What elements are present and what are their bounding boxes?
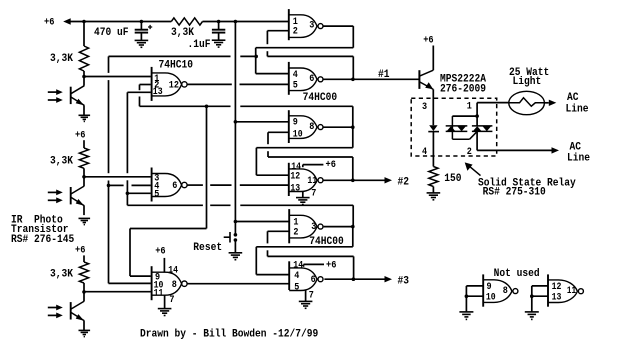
junction U3b output node — [352, 277, 356, 281]
svg-text:3: 3 — [422, 101, 427, 112]
svg-text:74HC10: 74HC10 — [159, 60, 194, 72]
ground Q3 emitter — [79, 218, 91, 224]
svg-text:+6: +6 — [75, 245, 85, 257]
svg-text:74HC00: 74HC00 — [303, 92, 338, 104]
svg-text:7: 7 — [311, 187, 316, 198]
svg-text:3: 3 — [309, 20, 314, 31]
svg-text:Not used: Not used — [494, 268, 540, 280]
ground reset switch — [229, 253, 243, 260]
junction spare1 inputs — [465, 294, 469, 298]
wire U2a out 3 feedback to U2b pin 4 — [323, 25, 353, 27]
svg-text:150: 150 — [444, 173, 461, 185]
svg-text:#3: #3 — [398, 275, 410, 287]
wire U2c pin 10 from U2d out — [268, 131, 289, 133]
junction U2c pin 9 tap — [234, 120, 238, 124]
svg-text:2: 2 — [293, 25, 298, 36]
svg-text:8: 8 — [309, 121, 314, 132]
wire U1c out 8 to U3b pin 5 — [187, 283, 289, 285]
wire U1b out 6 to U2d pin 13 — [187, 184, 203, 186]
resistor R5 150 — [429, 167, 438, 187]
svg-text:14: 14 — [293, 260, 303, 271]
arrow pointer to relay box — [465, 162, 481, 175]
wire photo1 to U1a pin 1 — [84, 76, 151, 78]
gate U1b 74HC10 (pins 3,4,5 out 6) — [152, 168, 187, 202]
wire relay pin 1 to lamp — [477, 102, 509, 104]
junction reset net top — [234, 20, 238, 24]
svg-text:7: 7 — [309, 289, 314, 300]
wire latch2-chain to U1c pin 9 — [206, 106, 208, 228]
svg-text:1: 1 — [467, 100, 472, 111]
wire photo3 to U1c pin 11 — [84, 291, 151, 293]
arrow +6 supply (left) — [63, 18, 70, 24]
wire photo2 to U1b pin 3 — [84, 176, 151, 178]
wire U1a pin 13 stub — [127, 91, 150, 93]
svg-text:470 uF: 470 uF — [94, 27, 129, 39]
ground C2 — [212, 40, 226, 47]
wire top +6 rail to gate A pin 1 — [70, 21, 171, 23]
junction U3a output node — [351, 225, 355, 229]
wire spare2 inputs tied — [532, 285, 548, 287]
gate U3 spare (pins 12,13 out 11) — [548, 274, 583, 306]
svg-text:+6: +6 — [155, 246, 165, 258]
svg-text:6: 6 — [172, 180, 177, 191]
junction C1 top — [140, 20, 144, 24]
resistor R2 3.3K — [79, 148, 88, 168]
svg-text:10: 10 — [486, 291, 496, 302]
svg-text:3: 3 — [311, 221, 316, 232]
svg-text:4: 4 — [422, 146, 427, 157]
svg-text:+6: +6 — [326, 159, 336, 171]
svg-text:5: 5 — [294, 281, 299, 292]
svg-text:+6: +6 — [423, 35, 433, 47]
svg-text:11: 11 — [567, 285, 576, 296]
svg-text:Line: Line — [566, 104, 589, 116]
svg-text:13: 13 — [153, 86, 163, 97]
gate U2a 74HC00 (pins 1,2 out 3) — [289, 9, 323, 40]
wire Q1 collector to +6 — [432, 46, 434, 71]
gate U1c 74HC10 (pins 9,10,11 out 8) — [152, 266, 187, 300]
wire latch1-Q bus y=56 — [109, 55, 231, 57]
svg-text:6: 6 — [311, 274, 316, 285]
op gate U1a 74HC10 (pins 1,2,13 out 12) — [152, 67, 187, 101]
wire Q1 emitter to relay LED — [432, 89, 434, 125]
svg-text:4: 4 — [293, 69, 298, 80]
wire U1b pin 5 stub — [127, 192, 150, 194]
junction spare2 inputs — [530, 294, 534, 298]
wire latch3-Q vertical x=127 — [126, 92, 128, 173]
svg-text:AC: AC — [570, 141, 582, 153]
wire U2b out 6 to transistor Q1 base / output #1 — [323, 78, 419, 80]
IR light arrows — [48, 305, 63, 319]
junction U3a pin 1 tap — [234, 220, 238, 224]
wire spare2 to ground — [531, 296, 533, 312]
svg-text:2: 2 — [467, 146, 472, 157]
wire R1 top lead — [83, 22, 85, 47]
svg-text:Drawn by - Bill Bowden -12/7/9: Drawn by - Bill Bowden -12/7/99 — [140, 329, 318, 341]
svg-text:3,3K: 3,3K — [50, 155, 73, 167]
wire U3a out feedback to U3b pin 4 — [352, 227, 354, 247]
wire R1 bottom lead — [83, 71, 85, 77]
wire U2d out 11 / output #2 — [323, 179, 384, 181]
IR light arrows — [48, 89, 63, 103]
phototransistor Q2 (IR #1) — [71, 77, 85, 115]
wire U1a pin 2 stub — [140, 84, 151, 86]
svg-text:276-2009: 276-2009 — [440, 84, 486, 96]
gate U2d 74HC00 (pins 12,13 out 11) — [289, 163, 323, 196]
gate U2b 74HC00 (pins 4,5 out 6) — [289, 62, 323, 95]
ground U1c pin 7 — [158, 309, 172, 316]
transistor Q1 MPS2222A — [419, 70, 433, 89]
pin 7 U2d wire to ground — [302, 191, 304, 197]
svg-text:RS# 275-310: RS# 275-310 — [483, 187, 546, 199]
junction U1b pin 5 tap — [126, 192, 130, 196]
svg-text:#1: #1 — [378, 69, 390, 81]
wire relay pin1 internal — [452, 115, 477, 117]
wire U2c out to bus106 — [352, 106, 354, 127]
ground U3b pin 7 — [299, 301, 313, 308]
svg-text:11: 11 — [154, 287, 164, 298]
wire U3a out to bus205 — [352, 205, 354, 226]
junction U1b pin 4 tap — [107, 184, 111, 188]
wire U2c out feedback to U2d pin 12 — [352, 127, 354, 148]
junction U2c output node — [351, 125, 355, 129]
svg-text:9: 9 — [293, 117, 298, 128]
wire latch1-Q vertical x=108 — [108, 56, 110, 73]
ground spare1 — [459, 312, 473, 320]
wire U1b pin 4 stub — [109, 184, 124, 186]
switch S1 Reset pushbutton — [224, 232, 238, 243]
ground C1 — [135, 40, 149, 47]
phototransistor Q4 (IR #3) — [71, 292, 85, 330]
resistor R3 3.3K — [79, 262, 88, 283]
svg-text:14: 14 — [291, 161, 301, 172]
wire U3a pin 1 stub — [235, 221, 289, 223]
svg-text:14: 14 — [168, 265, 178, 276]
junction triac top — [475, 114, 479, 118]
svg-text:4: 4 — [294, 270, 299, 281]
diode LED inside relay — [428, 125, 439, 131]
triac inside relay — [446, 116, 493, 139]
svg-text:13: 13 — [290, 182, 300, 193]
wire R3 bottom lead — [83, 283, 85, 292]
node photo3 collector junction — [82, 290, 86, 294]
svg-text:3,3K: 3,3K — [50, 268, 73, 280]
svg-text:5: 5 — [154, 188, 159, 199]
pin 14 U2d wire to +6 — [302, 165, 304, 168]
wire U2c pin 9 stub — [235, 121, 288, 123]
wire R5 to ground — [432, 187, 434, 193]
ground Q4 emitter — [79, 330, 91, 336]
svg-text:+6: +6 — [326, 260, 336, 272]
node photo1 collector junction — [82, 75, 86, 79]
plus sign C1 — [148, 25, 152, 29]
junction U2b output node — [351, 78, 355, 82]
pin 14 U3b wire to +6 — [303, 264, 305, 266]
junction C2 top — [217, 20, 221, 24]
pin 7 U1c wire to ground — [164, 295, 166, 308]
svg-text:#2: #2 — [398, 176, 410, 188]
capacitor C2 .1uF — [212, 22, 225, 41]
wire relay pin 2 to AC line — [477, 149, 551, 151]
svg-text:11: 11 — [307, 175, 317, 186]
wire latch3-Q bus y=205 — [127, 204, 202, 206]
wire latch2-Q bus y=106 — [140, 105, 231, 107]
lamp L1 25 Watt — [509, 91, 545, 114]
wire U3a out 3 node — [324, 226, 353, 228]
svg-text:AC: AC — [567, 92, 579, 104]
svg-text:7: 7 — [169, 294, 174, 305]
resistor R4 3.3K (horizontal) — [171, 18, 202, 25]
svg-text:RS# 276-145: RS# 276-145 — [11, 234, 74, 246]
arrow output #3 — [385, 276, 393, 282]
wire R3 top lead — [83, 255, 85, 262]
wire U3b out 6 / output #3 — [324, 278, 384, 280]
wire reset net vertical x=235 — [234, 22, 236, 235]
IR light arrows — [48, 190, 63, 204]
svg-text:2: 2 — [293, 227, 298, 238]
wire R2 bottom lead — [83, 168, 85, 177]
gate U2 spare (pins 9,10 out 8) — [483, 274, 518, 306]
node photo2 collector junction — [82, 175, 86, 179]
arrow AC line bottom — [552, 147, 560, 153]
resistor R1 3.3K — [79, 46, 88, 71]
svg-text:12: 12 — [169, 79, 179, 90]
ground U2d pin 7 — [296, 198, 310, 205]
wire U2a pin 2 from U2b out — [267, 30, 288, 32]
wire spare1 to ground — [465, 296, 467, 312]
wire switch to ground — [234, 240, 236, 252]
gate U3b 74HC00 (pins 4,5 out 6) — [289, 261, 323, 290]
ground Q2 emitter — [79, 115, 91, 121]
capacitor C1 470uF — [135, 22, 148, 41]
svg-text:13: 13 — [552, 292, 562, 303]
gate U2c 74HC00 (pins 9,10 out 8) — [289, 110, 323, 143]
wire U3a pin 2 from U3b out — [268, 230, 290, 232]
wire U1a out 12 to U2b pin 5 — [187, 83, 232, 85]
junction latch1-Q bus tap — [254, 55, 258, 59]
arrow output #2 — [385, 177, 393, 183]
svg-text:Line: Line — [567, 153, 590, 165]
pin 7 U3b wire to ground — [305, 290, 307, 301]
svg-text:10: 10 — [293, 128, 303, 139]
ground R5 — [427, 193, 441, 200]
wire LED cathode to R5 — [432, 132, 434, 167]
svg-text:Reset: Reset — [193, 242, 222, 254]
wire R2 top lead — [83, 140, 85, 148]
wire lamp to AC line — [544, 102, 549, 104]
gate U3a 74HC00 (pins 1,2 out 3) — [289, 209, 323, 243]
junction R1 top — [82, 20, 86, 24]
svg-text:+6: +6 — [75, 129, 85, 141]
relay dashed box (solid state relay) — [411, 98, 497, 156]
wire U2c out 8 node — [323, 126, 353, 128]
svg-text:8: 8 — [172, 279, 177, 290]
wire latch1-Q to U1c pin 10 — [109, 282, 151, 284]
svg-text:+6: +6 — [44, 16, 54, 28]
wire spare1 inputs tied — [466, 285, 483, 287]
svg-text:12: 12 — [290, 171, 300, 182]
junction U2d output node — [351, 179, 355, 183]
svg-text:8: 8 — [503, 285, 508, 296]
svg-text:Light: Light — [513, 76, 542, 88]
svg-text:3,3K: 3,3K — [171, 27, 194, 39]
ground spare2 — [525, 312, 539, 320]
junction bus106 to reset-chain vertical — [205, 105, 209, 109]
svg-text:6: 6 — [309, 73, 314, 84]
phototransistor Q3 (IR #2) — [71, 177, 85, 215]
svg-text:3,3K: 3,3K — [50, 53, 73, 65]
svg-text:9: 9 — [487, 281, 492, 292]
svg-text:12: 12 — [552, 281, 562, 292]
svg-text:.1uF: .1uF — [188, 39, 211, 51]
svg-text:5: 5 — [293, 80, 298, 91]
arrow AC line top — [549, 100, 557, 106]
wire triac to relay pin 2 — [476, 131, 478, 150]
pin 14 U1c wire to +6 — [163, 258, 165, 273]
